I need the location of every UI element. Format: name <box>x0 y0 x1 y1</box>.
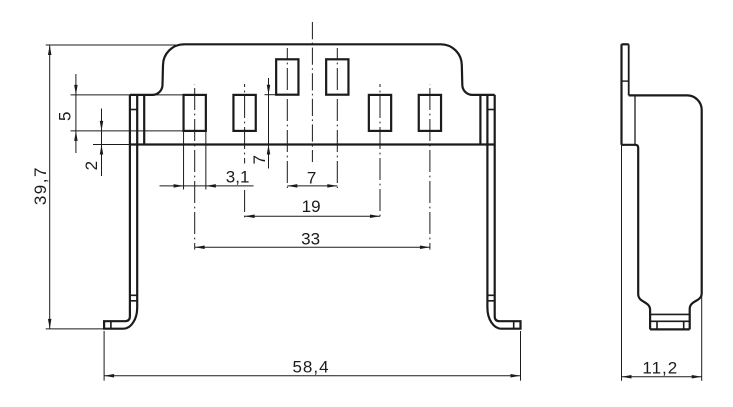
arrow 7v top (outside, pointing down) <box>267 85 271 95</box>
dimension texts front view <box>31 112 329 377</box>
dim 2 line <box>101 109 103 177</box>
dim 7 vertical: extension at slot3 bottom <box>265 94 277 96</box>
arrow 7h left <box>287 184 297 188</box>
foot block bottom <box>650 328 690 330</box>
left foot bend tick <box>110 321 112 329</box>
blade top edge <box>622 43 629 45</box>
slot 2 centerline lower <box>244 190 246 219</box>
slot1 edge extension lines for 3,1 <box>184 131 206 190</box>
dim 5 extension top <box>71 94 184 96</box>
right outer edge, right foot <box>487 95 520 329</box>
arrow 19 right <box>370 215 380 219</box>
slot 2 <box>233 95 255 131</box>
foot block ticks <box>657 321 684 329</box>
dim 58,4 extensions <box>104 331 520 381</box>
slot 2 centerline <box>244 84 246 164</box>
right flange inner line <box>479 95 481 145</box>
dim 11,2 extension left <box>621 145 623 381</box>
right foot bend tick <box>513 321 515 329</box>
svg-text:19: 19 <box>302 197 321 216</box>
dim 2 extension bottom (band bottom ext) <box>93 144 130 146</box>
arrow 58,4 left <box>104 374 114 378</box>
arrow 33 right <box>420 246 430 250</box>
arrow 11,2 right <box>692 375 702 379</box>
arrow 19 left <box>245 215 255 219</box>
svg-text:7: 7 <box>250 155 269 164</box>
dim 39,7 line <box>49 45 51 329</box>
dim 11,2 line <box>622 376 702 378</box>
svg-text:58,4: 58,4 <box>292 358 329 377</box>
dim 7 vertical line <box>268 78 270 169</box>
slot 4 <box>326 59 348 94</box>
left flange inner line <box>143 95 145 145</box>
foot block line lower <box>650 320 690 322</box>
arrow 39,7 bottom <box>48 319 52 329</box>
dim 5 line <box>75 74 77 153</box>
arrow 3,1 right (outside, pointing left) <box>206 184 216 188</box>
dim 39,7 extension bottom <box>46 328 104 330</box>
slot 1 <box>184 95 206 131</box>
svg-text:39,7: 39,7 <box>31 166 50 205</box>
arrow 39,7 top <box>48 45 52 55</box>
dim 5 / 2 extension (slot bottom) <box>71 130 184 132</box>
slot 6 <box>419 95 441 131</box>
svg-text:33: 33 <box>301 229 320 248</box>
left leg bend ticks <box>130 295 137 301</box>
dim 58,4 line <box>104 375 520 377</box>
dim 7 horizontal line <box>287 185 337 187</box>
slot 3 centerline <box>286 48 288 188</box>
left outer edge, left foot <box>104 95 137 329</box>
arrowheads front view <box>48 45 521 378</box>
arrow 7v bottom (outside, pointing up) <box>267 145 271 155</box>
svg-text:11,2: 11,2 <box>642 359 678 378</box>
blade outer edge + step + body left edge + left neck + foot block <box>622 44 651 329</box>
svg-text:7: 7 <box>307 168 316 187</box>
arrow 5 bottom (outside, pointing up) <box>74 131 78 141</box>
slot 4 centerline <box>336 48 338 188</box>
arrow 2 bottom (outside, pointing up) <box>100 145 104 155</box>
slot 1 centerline <box>194 84 196 250</box>
dim 39,7 extension top <box>46 44 184 46</box>
centerlines (dash-dot) <box>195 22 430 250</box>
dimension lines and extension lines <box>46 45 521 381</box>
blade right edge <box>628 44 630 95</box>
foot block line upper <box>650 313 690 315</box>
arrow 7h right <box>327 184 337 188</box>
slot 5 centerline <box>379 84 381 219</box>
main centerline <box>311 22 313 162</box>
body top edge and right edge with rounded corner, right neck <box>629 95 702 329</box>
blade bend tick <box>622 80 629 82</box>
slot 3 <box>276 59 298 94</box>
bracket top profile: left end edge, left S-curve, top edge, right S-curve, right end edge <box>130 44 495 95</box>
left flange bend tick <box>130 109 137 111</box>
arrow 11,2 left <box>622 375 632 379</box>
arrow 58,4 right <box>511 374 521 378</box>
right flange bend tick <box>487 109 494 111</box>
dim 19 line <box>245 215 380 217</box>
dim 33 line <box>195 246 430 248</box>
arrow 3,1 left (outside, pointing right) <box>174 184 184 188</box>
svg-text:5: 5 <box>56 112 75 121</box>
band bottom edge <box>130 143 495 145</box>
slot 5 <box>369 95 391 131</box>
slot 6 centerline <box>429 84 431 250</box>
plate back line <box>634 95 636 144</box>
svg-text:2: 2 <box>82 161 101 170</box>
dim 3,1 line <box>160 185 254 187</box>
arrow 2 top (outside, pointing down) <box>100 121 104 131</box>
dim 11,2 extension right <box>701 296 703 381</box>
arrow 5 top (outside, pointing down) <box>74 85 78 95</box>
svg-text:3,1: 3,1 <box>226 168 250 187</box>
right leg bend ticks <box>487 295 494 301</box>
arrow 33 left <box>195 246 205 250</box>
